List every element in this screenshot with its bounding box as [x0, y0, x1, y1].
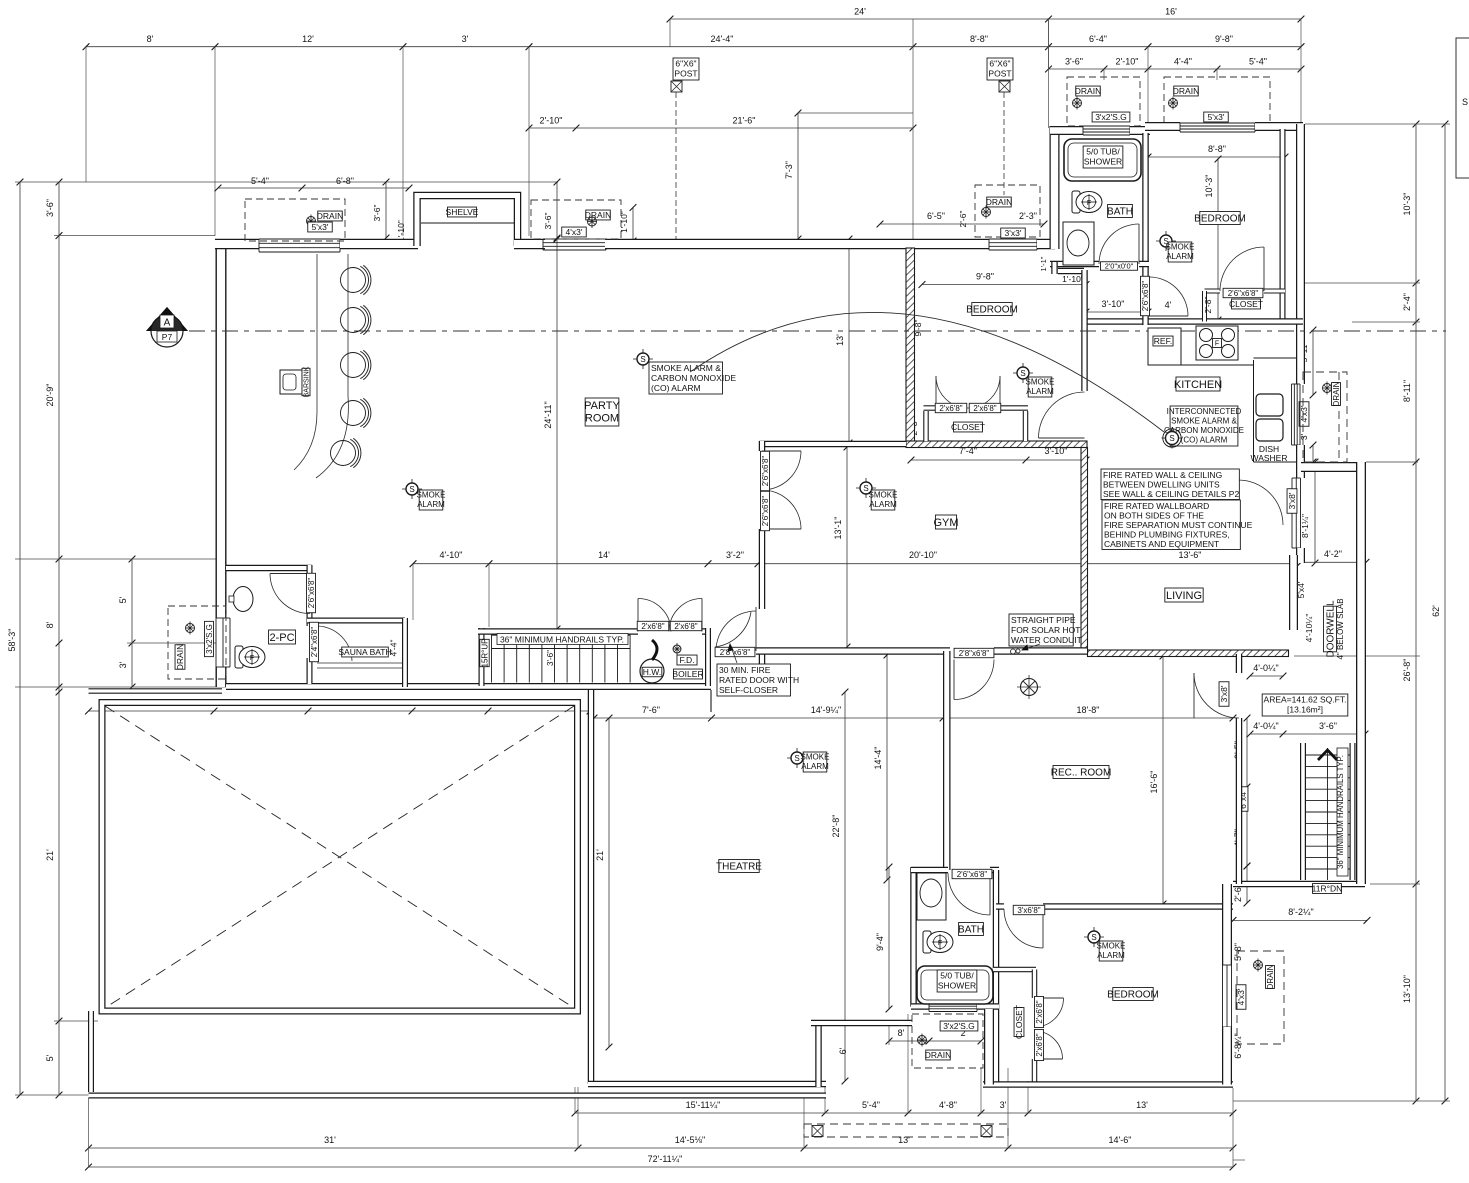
fire rated wall west (hatched) — [906, 248, 915, 443]
bath/bedroom3 divider wall — [1142, 133, 1149, 277]
svg-text:DRAIN: DRAIN — [925, 1050, 951, 1060]
svg-text:18'-8": 18'-8" — [1077, 705, 1100, 715]
svg-text:DRAIN: DRAIN — [1075, 86, 1101, 96]
svg-text:7'-3": 7'-3" — [784, 161, 794, 179]
svg-text:SHOWER: SHOWER — [1084, 156, 1122, 166]
svg-text:3'x2'S.G: 3'x2'S.G — [1095, 112, 1127, 122]
svg-text:SMOKE: SMOKE — [1166, 243, 1195, 252]
bath upper — [1064, 139, 1141, 181]
barsink — [280, 370, 302, 394]
svg-text:F: F — [938, 940, 942, 947]
gym double doors — [762, 451, 801, 490]
bath2 door — [948, 873, 990, 915]
party room label — [585, 398, 619, 426]
theatre — [719, 860, 759, 873]
svg-text:2'8"x6'8": 2'8"x6'8" — [959, 649, 990, 658]
svg-text:8'-1¼": 8'-1¼" — [1300, 514, 1310, 538]
left dim line2 — [58, 182, 60, 1095]
svg-text:36" MINIMUM HANDRAILS TYP.: 36" MINIMUM HANDRAILS TYP. — [500, 634, 624, 644]
svg-text:FIRE RATED WALL & CEILING: FIRE RATED WALL & CEILING — [1103, 470, 1222, 480]
left dim line3: 5/3 — [131, 559, 133, 687]
svg-text:8'-11": 8'-11" — [1402, 380, 1412, 402]
svg-text:13'-6": 13'-6" — [1179, 550, 1202, 560]
svg-text:14'-9¼": 14'-9¼" — [811, 705, 841, 715]
svg-text:14'-5⅛": 14'-5⅛" — [675, 1135, 705, 1145]
bath upper door — [1099, 224, 1139, 264]
hall wall below bath — [1051, 262, 1058, 274]
svg-text:2'8"x6'8": 2'8"x6'8" — [720, 648, 751, 657]
svg-text:13'-1": 13'-1" — [833, 517, 843, 540]
svg-text:6'-8": 6'-8" — [336, 176, 354, 186]
patio step wall — [815, 1023, 822, 1087]
svg-text:3': 3' — [462, 34, 469, 44]
bedroom2 — [972, 303, 1012, 316]
west wall window 3x2SG — [215, 618, 217, 667]
bedroom2 closet double doors — [936, 376, 968, 408]
svg-text:BATH: BATH — [1107, 207, 1133, 218]
svg-text:24'-4": 24'-4" — [711, 34, 734, 44]
stairs1 left wall — [479, 628, 485, 686]
sauna top wall — [307, 618, 405, 624]
svg-text:2'-10": 2'-10" — [1116, 57, 1139, 67]
stairs 11R DN — [1300, 743, 1306, 880]
svg-text:FIRE RATED WALLBOARD: FIRE RATED WALLBOARD — [1104, 501, 1209, 511]
gym left wall — [759, 441, 766, 451]
svg-text:2'6"x6'8": 2'6"x6'8" — [1228, 289, 1259, 298]
svg-text:SMOKE: SMOKE — [869, 491, 898, 500]
svg-text:SMOKE: SMOKE — [1097, 942, 1126, 951]
top wall window3 3x3 — [989, 238, 1037, 240]
svg-text:3'x2'S.G: 3'x2'S.G — [205, 624, 214, 654]
svg-text:14': 14' — [598, 550, 610, 560]
window well drain box top 1 (bath window) — [1067, 77, 1140, 126]
top wall mid segments — [514, 239, 545, 250]
smoke co alarm note + leader arc — [633, 358, 653, 360]
boiler double doors — [638, 599, 671, 632]
west window well — [168, 606, 226, 679]
bedroom2 window well — [975, 185, 1040, 237]
svg-text:15'-11¼": 15'-11¼" — [686, 1100, 721, 1110]
right ext lines — [1305, 123, 1450, 125]
top dim extension lines — [85, 47, 87, 182]
svg-text:3'-6": 3'-6" — [1065, 57, 1083, 67]
svg-text:4': 4' — [1165, 300, 1172, 310]
svg-text:62': 62' — [1431, 605, 1441, 617]
svg-text:CABINETS AND EQUIPMENT: CABINETS AND EQUIPMENT — [1104, 539, 1219, 549]
svg-text:2'-6": 2'-6" — [958, 211, 968, 228]
svg-text:16'-6": 16'-6" — [1149, 771, 1159, 794]
svg-text:9'-4": 9'-4" — [875, 933, 885, 951]
6x6 post top left — [673, 58, 699, 80]
bottom dim row1 — [575, 1112, 1233, 1114]
fire rated wall gym right (hatched) — [1081, 448, 1088, 653]
svg-text:16': 16' — [1165, 7, 1177, 17]
svg-text:3'-6": 3'-6" — [546, 650, 555, 666]
shelve nook — [417, 196, 518, 247]
svg-text:KITCHEN: KITCHEN — [1174, 379, 1222, 391]
bedroom3 dims — [1148, 156, 1285, 158]
svg-text:13': 13' — [835, 334, 845, 346]
svg-text:SHELVE: SHELVE — [446, 207, 479, 217]
east window well kitchen — [1303, 372, 1347, 462]
svg-text:SEE WALL & CEILING DETAILS P2: SEE WALL & CEILING DETAILS P2 — [1103, 489, 1239, 499]
6x6 post top mid — [987, 58, 1013, 80]
rec room left wall — [943, 651, 951, 870]
svg-text:SHOWER: SHOWER — [938, 980, 976, 990]
svg-text:8': 8' — [147, 34, 154, 44]
right dim column — [1415, 124, 1417, 1101]
svg-text:2'x6'8": 2'x6'8" — [939, 404, 962, 413]
svg-text:F: F — [1087, 200, 1091, 207]
door 2pc — [270, 574, 310, 614]
bottom dim row3 — [89, 1166, 1234, 1168]
doorwell boundary — [1356, 462, 1366, 884]
svg-text:4'x3': 4'x3' — [1236, 988, 1246, 1005]
svg-text:S: S — [640, 355, 645, 364]
bottom dim row2 — [89, 1147, 1234, 1149]
svg-text:H.W.: H.W. — [643, 667, 661, 677]
svg-text:6'-5": 6'-5" — [927, 211, 945, 221]
gym labels — [935, 515, 956, 529]
svg-text:2'x6'8": 2'x6'8" — [1035, 1033, 1044, 1056]
fire rated notes — [1101, 469, 1239, 500]
svg-text:2'6"x6'8": 2'6"x6'8" — [307, 578, 316, 609]
svg-text:BOILER: BOILER — [672, 669, 703, 679]
svg-text:3': 3' — [118, 661, 128, 668]
svg-text:12': 12' — [302, 34, 314, 44]
bedroom4 east window well — [1237, 951, 1284, 1044]
svg-text:2'x6'8": 2'x6'8" — [674, 622, 697, 631]
svg-text:8'-2¼": 8'-2¼" — [1288, 907, 1313, 917]
svg-text:ALARM: ALARM — [1026, 387, 1054, 396]
svg-text:REC.. ROOM: REC.. ROOM — [1051, 768, 1112, 779]
svg-text:ON BOTH SIDES OF THE: ON BOTH SIDES OF THE — [1104, 510, 1204, 520]
svg-text:21': 21' — [595, 849, 605, 861]
svg-text:14'-4": 14'-4" — [873, 747, 883, 770]
bedroom4 entry door — [1004, 909, 1043, 948]
bar counter — [294, 254, 317, 470]
top wall left segment — [215, 239, 259, 250]
svg-text:3'-6": 3'-6" — [543, 213, 553, 230]
fire rated corridor door — [716, 611, 756, 651]
svg-text:3'x8': 3'x8' — [1287, 492, 1297, 509]
sauna right wall — [402, 618, 408, 687]
svg-text:31': 31' — [324, 1135, 336, 1145]
bottom ext lines — [88, 1098, 90, 1167]
bath2 window well — [912, 1014, 983, 1068]
svg-text:LIVING: LIVING — [1166, 590, 1202, 602]
doorwell — [1324, 600, 1337, 657]
fire rated wall living bottom (hatched) — [1088, 650, 1289, 657]
svg-text:72'-11¼": 72'-11¼" — [648, 1154, 683, 1164]
rec-living door — [1194, 673, 1239, 718]
left horiz extension lines — [15, 181, 558, 183]
svg-text:BETWEEN DWELLING UNITS: BETWEEN DWELLING UNITS — [1103, 479, 1220, 489]
svg-text:POST: POST — [674, 68, 697, 78]
svg-text:1'-10": 1'-10" — [396, 220, 406, 242]
svg-text:S: S — [1169, 434, 1174, 443]
svg-text:5/0 TUB/: 5/0 TUB/ — [940, 970, 974, 980]
svg-text:POST: POST — [988, 68, 1011, 78]
svg-text:5'-4": 5'-4" — [862, 1100, 880, 1110]
sauna — [342, 647, 389, 657]
svg-text:CLOSET: CLOSET — [951, 422, 985, 432]
stairs 15R UP — [491, 635, 493, 683]
svg-text:S: S — [794, 754, 799, 763]
svg-text:SMOKE: SMOKE — [417, 491, 446, 500]
theatre bottom wall — [588, 1081, 826, 1088]
svg-text:5'-4": 5'-4" — [1249, 57, 1267, 67]
svg-text:BARSINK: BARSINK — [304, 366, 311, 397]
top dimension row 2 — [86, 46, 1301, 48]
svg-text:13'-10": 13'-10" — [1402, 975, 1412, 1003]
svg-text:58'-3": 58'-3" — [7, 629, 17, 652]
kitchen — [1176, 377, 1220, 391]
bath2 walls — [910, 867, 917, 1007]
svg-text:SMOKE: SMOKE — [1026, 378, 1055, 387]
svg-text:4'-4": 4'-4" — [389, 640, 399, 657]
theatre vertical dims — [608, 718, 610, 1047]
section line A-P7 — [189, 330, 1446, 332]
bedroom2 closet walls — [923, 411, 929, 441]
living — [1165, 588, 1203, 602]
svg-text:4'-8": 4'-8" — [939, 1100, 957, 1110]
svg-text:REF.: REF. — [1154, 336, 1172, 346]
west exterior wall — [216, 239, 227, 618]
svg-text:5'-8": 5'-8" — [1233, 943, 1243, 961]
door sauna — [318, 626, 352, 661]
svg-text:7'-6": 7'-6" — [642, 705, 660, 715]
svg-text:8'-8": 8'-8" — [1208, 144, 1226, 154]
svg-text:SMOKE ALARM &: SMOKE ALARM & — [651, 363, 721, 373]
svg-text:S: S — [1091, 933, 1096, 942]
straight pipe note — [1009, 614, 1073, 646]
rec room right dims — [1246, 718, 1248, 866]
bedroom3 bottom wall — [1085, 318, 1304, 325]
2pc/sauna right wall — [307, 565, 313, 574]
svg-text:11R°DN: 11R°DN — [1312, 884, 1343, 894]
south wall under stairs — [226, 683, 588, 690]
svg-text:CLOSET: CLOSET — [1014, 1005, 1024, 1039]
svg-text:5/0 TUB/: 5/0 TUB/ — [1086, 146, 1120, 156]
svg-text:DOORWELL: DOORWELL — [1326, 600, 1337, 657]
svg-text:S: S — [1462, 97, 1468, 107]
svg-text:AREA=141.62 SQ.FT.: AREA=141.62 SQ.FT. — [1264, 694, 1347, 704]
porch outline — [88, 1011, 94, 1092]
svg-text:9'-8": 9'-8" — [1215, 34, 1233, 44]
svg-text:6"X6": 6"X6" — [989, 58, 1010, 68]
svg-text:4'-2": 4'-2" — [1324, 549, 1342, 559]
svg-text:A: A — [164, 318, 171, 329]
top wall window2 4x3 — [543, 238, 606, 240]
svg-text:CLOSET: CLOSET — [1229, 299, 1263, 309]
svg-text:RATED DOOR WITH: RATED DOOR WITH — [719, 675, 799, 685]
svg-text:6': 6' — [838, 1047, 848, 1054]
svg-text:20'-10": 20'-10" — [909, 550, 937, 560]
svg-text:5': 5' — [45, 1054, 55, 1061]
svg-text:BATH: BATH — [958, 925, 984, 936]
svg-text:14'-6": 14'-6" — [1109, 1135, 1132, 1145]
svg-text:F.D.: F.D. — [679, 655, 694, 665]
svg-text:24'-11": 24'-11" — [543, 401, 553, 428]
svg-text:6'-8¼": 6'-8¼" — [1233, 1033, 1243, 1058]
svg-text:2'6"x6'8": 2'6"x6'8" — [1141, 281, 1150, 312]
svg-text:2'6"x6'8": 2'6"x6'8" — [761, 496, 770, 527]
handrail label — [497, 634, 628, 645]
fire rated wall gym top (hatched) — [906, 441, 1087, 448]
svg-text:WATER CONDUIT: WATER CONDUIT — [1011, 635, 1082, 645]
svg-text:2-PC: 2-PC — [269, 632, 294, 644]
rec/doorwell wall — [1236, 654, 1243, 673]
svg-text:2'6"x6'8": 2'6"x6'8" — [957, 870, 988, 879]
svg-text:5': 5' — [118, 596, 128, 603]
east exterior wall upper — [1296, 124, 1305, 384]
theatre left exterior wall — [588, 687, 595, 1084]
west wing south wall — [89, 688, 223, 694]
svg-text:13': 13' — [1136, 1100, 1148, 1110]
svg-text:6'-4": 6'-4" — [1089, 34, 1107, 44]
party drain dashed box left — [245, 199, 345, 241]
svg-text:10'-3": 10'-3" — [1402, 193, 1412, 216]
svg-text:4'-0¼": 4'-0¼" — [1253, 721, 1278, 731]
svg-text:BEDROOM: BEDROOM — [1107, 990, 1159, 1001]
svg-text:[13.16m²]: [13.16m²] — [1287, 704, 1323, 714]
svg-text:2'x6'8": 2'x6'8" — [641, 622, 664, 631]
bath2 bottom + window — [911, 1003, 929, 1010]
party smoke alarm — [402, 488, 422, 490]
svg-text:BEDROOM: BEDROOM — [1194, 214, 1246, 225]
svg-text:BEHIND PLUMBING FIXTURES,: BEHIND PLUMBING FIXTURES, — [1104, 529, 1230, 539]
top dimension row 4: 2-10 / 21-6 — [529, 127, 913, 129]
svg-text:3'x3': 3'x3' — [1005, 228, 1022, 238]
top wall window1 — [259, 238, 340, 240]
bar stools — [341, 268, 366, 293]
theatre top wall — [588, 683, 711, 690]
bath bottom wall — [1050, 261, 1099, 268]
svg-text:DRAIN: DRAIN — [986, 197, 1012, 207]
svg-text:DRAIN: DRAIN — [317, 211, 343, 221]
svg-text:3'-2": 3'-2" — [726, 550, 744, 560]
svg-text:5'x3': 5'x3' — [1208, 112, 1225, 122]
svg-text:4'x3': 4'x3' — [1299, 405, 1309, 422]
bath top wall + window 3x2SG — [1050, 126, 1083, 135]
stairs1/boiler top wall — [478, 628, 638, 635]
bedroom4 — [1113, 988, 1153, 1001]
svg-text:INTERCONNECTED: INTERCONNECTED — [1167, 407, 1242, 416]
svg-text:3'-6": 3'-6" — [372, 205, 382, 222]
svg-text:3'-6": 3'-6" — [45, 199, 55, 217]
kitchen-living east door — [1238, 480, 1283, 525]
svg-text:9'-8": 9'-8" — [976, 272, 994, 282]
bedroom3 entry door — [1149, 277, 1188, 316]
theatre top dim row y718 — [594, 717, 1233, 719]
bath upper left wall — [1050, 126, 1060, 249]
svg-text:10'-3": 10'-3" — [1204, 175, 1214, 198]
svg-text:4'-10¼": 4'-10¼" — [1304, 614, 1314, 643]
svg-text:2'6"x6'8": 2'6"x6'8" — [761, 456, 770, 487]
svg-text:SELF-CLOSER: SELF-CLOSER — [719, 685, 778, 695]
garage X brace — [105, 706, 574, 1008]
svg-text:F: F — [250, 655, 254, 662]
party room vertical dim 13 — [848, 239, 850, 443]
svg-text:ALARM: ALARM — [1097, 951, 1125, 960]
gym/theatre separation wall — [756, 647, 950, 655]
closet4 double doors — [1035, 998, 1064, 1027]
rec room — [1053, 766, 1109, 779]
svg-text:FOR SOLAR HOT: FOR SOLAR HOT — [1011, 625, 1080, 635]
svg-text:2'-8": 2'-8" — [1203, 297, 1213, 314]
2pc fixtures — [229, 587, 253, 612]
garage walls — [102, 703, 578, 1012]
svg-text:STRAIGHT PIPE: STRAIGHT PIPE — [1011, 615, 1076, 625]
garage top dim row y711 — [89, 710, 591, 712]
svg-text:3'-6": 3'-6" — [1319, 721, 1337, 731]
svg-text:13': 13' — [898, 1135, 910, 1145]
svg-text:2'x6'8": 2'x6'8" — [973, 404, 996, 413]
svg-text:WASHER: WASHER — [1251, 453, 1288, 463]
svg-text:PARTY: PARTY — [584, 400, 620, 412]
gym top wall — [760, 441, 907, 448]
svg-text:2'4"x6'8": 2'4"x6'8" — [310, 627, 319, 658]
svg-text:3': 3' — [1299, 433, 1309, 440]
closet4 walls — [993, 967, 1036, 973]
svg-text:SMOKE: SMOKE — [801, 753, 830, 762]
svg-text:ROOM: ROOM — [585, 413, 619, 425]
bedroom2 dims — [922, 284, 1086, 286]
interconnected alarm note — [1170, 406, 1238, 446]
bedroom4 top wall — [996, 903, 1004, 910]
svg-text:1'-1": 1'-1" — [1039, 256, 1048, 271]
doorwell dims — [1301, 561, 1366, 563]
svg-text:26'-8": 26'-8" — [1402, 659, 1412, 682]
svg-text:(CO) ALARM: (CO) ALARM — [651, 383, 701, 393]
svg-text:24': 24' — [854, 7, 866, 17]
svg-text:ALARM: ALARM — [801, 762, 829, 771]
boiler room — [640, 659, 664, 683]
svg-text:2'-4": 2'-4" — [1402, 293, 1412, 311]
cut-off label box right edge — [1456, 38, 1469, 178]
svg-text:S: S — [409, 485, 414, 494]
svg-text:2'x6'8": 2'x6'8" — [1035, 1000, 1044, 1023]
svg-text:3': 3' — [1000, 1100, 1007, 1110]
svg-text:DRAIN: DRAIN — [1266, 964, 1275, 989]
svg-text:1'-10": 1'-10" — [1062, 274, 1084, 284]
svg-text:8': 8' — [898, 1028, 905, 1038]
left dim line 58-3 — [19, 182, 21, 1095]
svg-text:ALARM: ALARM — [869, 500, 897, 509]
gym vertical dim 13-1 — [846, 447, 848, 647]
svg-text:DRAIN: DRAIN — [1332, 381, 1341, 406]
svg-text:ALARM: ALARM — [1166, 252, 1194, 261]
svg-text:36" MINIMUM HANDRAILS TYP.: 36" MINIMUM HANDRAILS TYP. — [1336, 755, 1345, 869]
shelve nook dims — [218, 187, 409, 189]
kitchen/hall divider wall — [1081, 270, 1088, 391]
bedroom3 — [1200, 212, 1240, 225]
svg-text:8'-8": 8'-8" — [970, 34, 988, 44]
svg-text:2'0"x0'0": 2'0"x0'0" — [1105, 262, 1134, 271]
svg-text:22'-8": 22'-8" — [831, 815, 841, 838]
svg-text:(CO) ALARM: (CO) ALARM — [1181, 436, 1228, 445]
svg-text:8': 8' — [45, 621, 55, 628]
bedroom4 bottom wall — [983, 1081, 1233, 1088]
bedroom4 right wall + window — [1222, 884, 1232, 965]
svg-text:5'x3': 5'x3' — [312, 222, 329, 232]
rec room door — [954, 660, 994, 700]
top dimension row 3 — [1049, 68, 1302, 70]
svg-text:21': 21' — [45, 849, 55, 861]
svg-text:ALARM: ALARM — [417, 500, 445, 509]
svg-text:DRAIN: DRAIN — [175, 644, 185, 670]
